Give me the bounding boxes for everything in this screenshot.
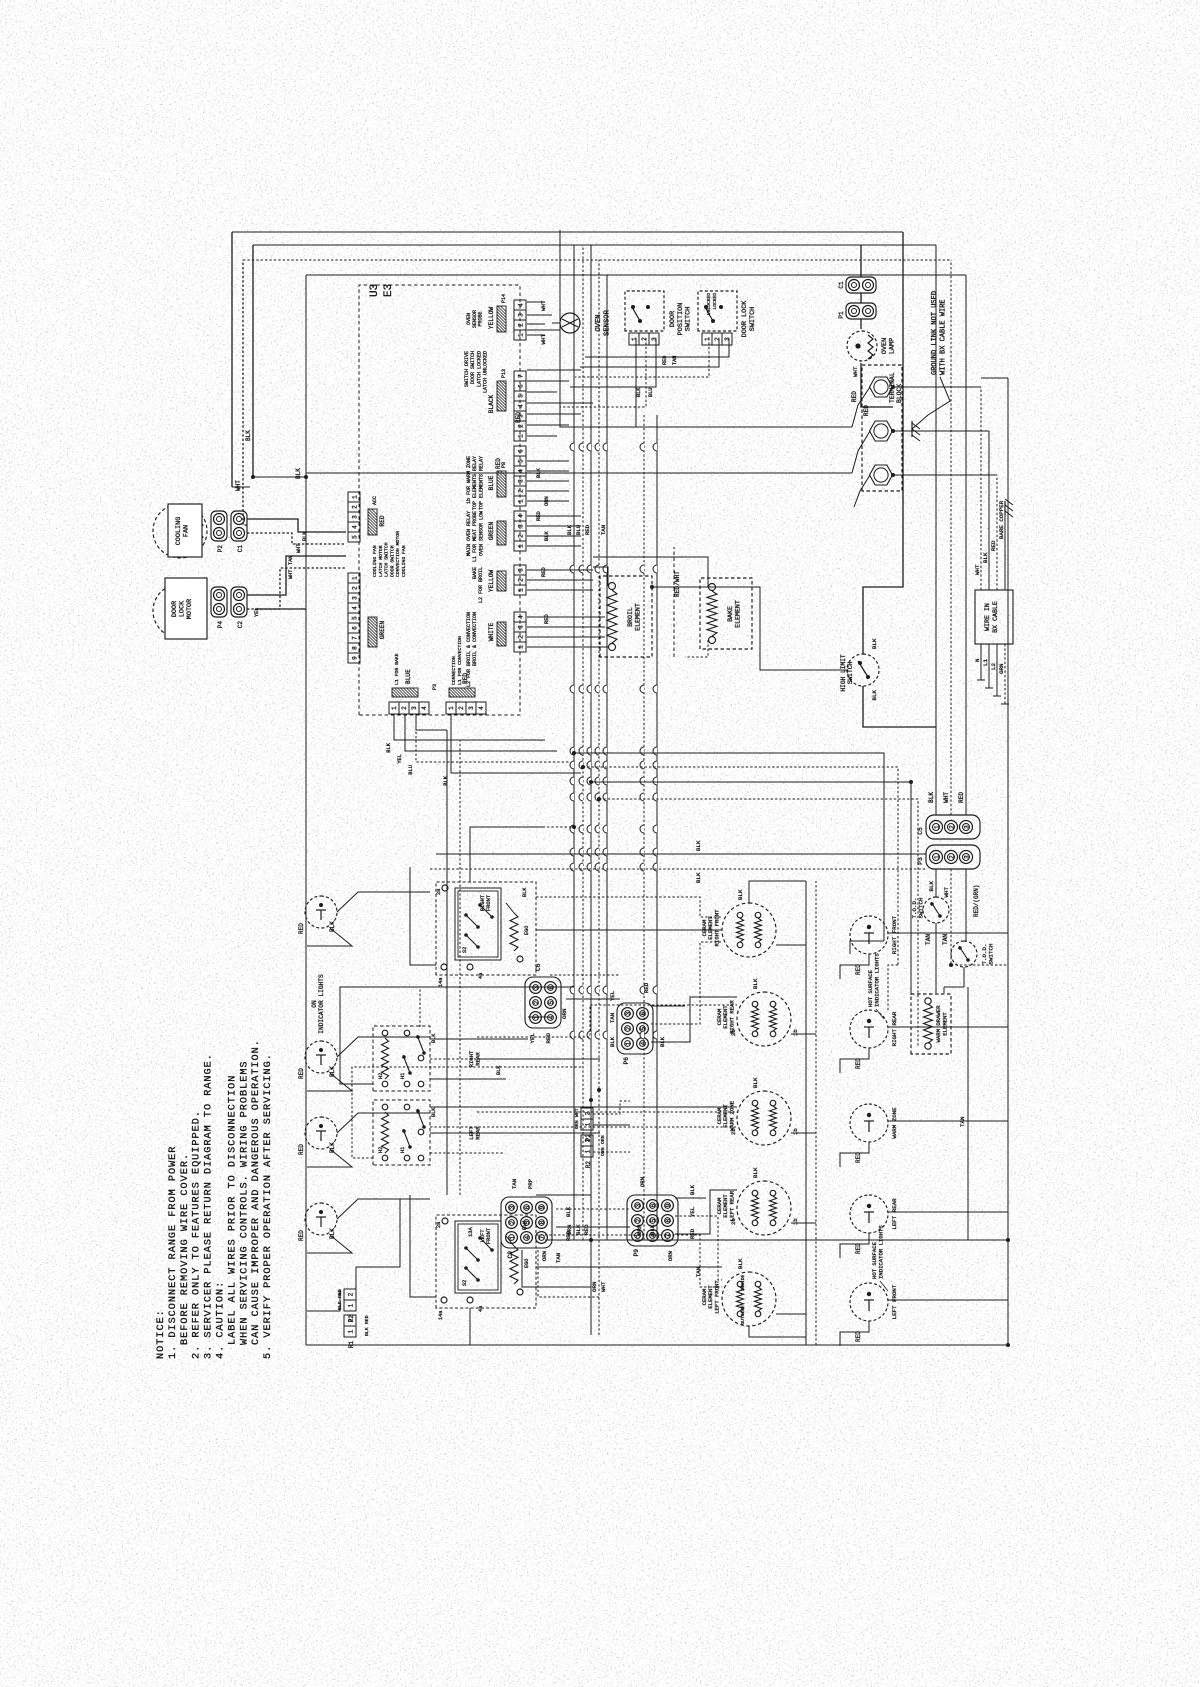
- wires hot lights: [840, 954, 869, 979]
- wire riser x818: [430, 868, 926, 870]
- svg-text:1: 1: [391, 706, 398, 710]
- wire hot light runs: [850, 941, 884, 954]
- svg-text:LATCH LOCKED: LATCH LOCKED: [476, 351, 482, 387]
- motor - cooling fan: [153, 504, 207, 558]
- wire bus band y=591: [590, 245, 592, 1335]
- svg-text:L1: L1: [982, 659, 989, 666]
- svg-text:ORN: ORN: [600, 1135, 606, 1144]
- svg-text:P13: P13: [501, 369, 507, 378]
- svg-text:INSIDE: INSIDE: [740, 1274, 746, 1291]
- svg-text:ACC: ACC: [372, 496, 378, 505]
- svg-text:ORN: ORN: [561, 1008, 568, 1019]
- wire bus band y=657: [656, 415, 658, 1240]
- svg-text:COOLING FAN: COOLING FAN: [372, 545, 378, 577]
- svg-text:WHT: WHT: [574, 1108, 580, 1117]
- svg-text:BLK: BLK: [536, 468, 542, 478]
- svg-text:8: 8: [665, 1218, 672, 1222]
- svg-text:WHT: WHT: [235, 480, 242, 491]
- svg-text:BLK: BLK: [431, 1033, 437, 1043]
- svg-text:3: 3: [352, 515, 359, 519]
- svg-text:1: 1: [518, 645, 525, 649]
- svg-text:FRONT: FRONT: [486, 1227, 492, 1244]
- svg-text:SWITCH DRIVE: SWITCH DRIVE: [464, 351, 470, 387]
- wires terminal block fan-out: [852, 387, 870, 427]
- on indicator light 4: [305, 1203, 337, 1235]
- svg-text:9: 9: [665, 1203, 672, 1207]
- svg-text:BLK: BLK: [522, 887, 528, 897]
- svg-text:BX CABLE: BX CABLE: [992, 601, 999, 633]
- svg-text:YELLOW: YELLOW: [488, 570, 495, 593]
- oven sensor: [527, 329, 560, 331]
- ceramic element left rear: [737, 1181, 791, 1235]
- wire P6 to elements: [651, 997, 737, 1042]
- svg-text:2b: 2b: [730, 1029, 737, 1036]
- svg-text:TAN: TAN: [600, 525, 607, 535]
- wires right front switch: [470, 827, 545, 882]
- wire BLK motor to bus: [252, 245, 254, 477]
- svg-text:5: 5: [518, 459, 525, 463]
- svg-text:3. SERVICER PLEASE RETURN DIA: 3. SERVICER PLEASE RETURN DIAGRAM TO RAN…: [204, 1053, 215, 1359]
- connector P4: [211, 587, 227, 617]
- svg-text:MOTOR: MOTOR: [186, 599, 194, 619]
- svg-text:RED: RED: [495, 458, 502, 469]
- svg-text:2. REFER ONLY TO FEATURES EQU: 2. REFER ONLY TO FEATURES EQUIPPED.: [192, 1110, 203, 1359]
- svg-text:13A: 13A: [468, 1227, 474, 1237]
- svg-text:BAKE: BAKE: [727, 606, 734, 622]
- svg-text:2: 2: [518, 635, 525, 639]
- warm drawer element: [911, 994, 951, 1054]
- svg-text:MAIN OVEN RELAY: MAIN OVEN RELAY: [466, 511, 472, 556]
- connector C2: [231, 587, 247, 617]
- svg-text:1: 1: [518, 434, 525, 438]
- svg-text:TAN: TAN: [959, 1116, 966, 1127]
- T.O.D. switch 1: [935, 869, 937, 897]
- svg-text:ORN: ORN: [591, 1281, 598, 1292]
- svg-text:2: 2: [401, 706, 408, 710]
- svg-text:WHT: WHT: [943, 886, 950, 897]
- svg-text:9: 9: [352, 656, 359, 660]
- svg-text:2: 2: [948, 855, 955, 859]
- hot surface indicator light left front: [850, 1283, 888, 1321]
- svg-text:RED: RED: [462, 673, 469, 684]
- svg-text:2: 2: [352, 505, 359, 509]
- svg-text:TOP ELEMENTS RELAY: TOP ELEMENTS RELAY: [478, 456, 484, 510]
- svg-text:RIGHT REAR: RIGHT REAR: [891, 1011, 898, 1046]
- svg-text:LABEL ALL WIRES PRIOR TO DISCO: LABEL ALL WIRES PRIOR TO DISCONNECTION: [227, 1075, 238, 1345]
- svg-text:WHT: WHT: [974, 564, 981, 575]
- connector BLACK (door latch): [514, 431, 526, 441]
- hot surface indicator light warm zone: [850, 1104, 888, 1142]
- svg-text:6: 6: [352, 626, 359, 630]
- svg-text:LAMP: LAMP: [889, 338, 897, 354]
- wire riser x888: [599, 799, 918, 1047]
- svg-text:1: 1: [631, 337, 638, 341]
- wires P2 R2: [593, 1124, 630, 1126]
- svg-text:BEFORE REMOVING WIRE COVER.: BEFORE REMOVING WIRE COVER.: [180, 1153, 191, 1345]
- svg-text:LATCH MOTOR: LATCH MOTOR: [378, 545, 384, 577]
- svg-text:TAN: TAN: [942, 934, 949, 945]
- svg-text:UNLOCKED: UNLOCKED: [706, 293, 712, 315]
- svg-text:6: 6: [518, 384, 525, 388]
- svg-text:4: 4: [518, 469, 525, 473]
- on indicator light 2: [305, 1041, 337, 1073]
- wire WHT to C5: [950, 260, 952, 815]
- connector P6: [617, 1003, 653, 1054]
- svg-text:LEFT REAR: LEFT REAR: [891, 1198, 898, 1230]
- svg-text:ORN: ORN: [639, 1177, 646, 1187]
- connector BLUE (elements relay): [514, 496, 526, 506]
- svg-text:TAN: TAN: [695, 1267, 702, 1277]
- connector C6: [525, 977, 561, 1028]
- svg-text:1: 1: [933, 825, 940, 829]
- svg-text:1: 1: [448, 706, 455, 710]
- connector P9: [627, 1195, 678, 1246]
- wires C9 P9: [556, 1226, 630, 1228]
- svg-text:4: 4: [524, 1235, 531, 1239]
- T.O.D. switch 2: [965, 869, 967, 941]
- svg-text:HIGH LIMIT: HIGH LIMIT: [840, 654, 847, 691]
- wire drops from board connectors: [527, 334, 545, 336]
- ceramic element warm zone: [737, 1091, 791, 1145]
- svg-text:RIGHT FRONT: RIGHT FRONT: [713, 909, 720, 947]
- svg-text:2: 2: [458, 706, 465, 710]
- svg-text:WHT: WHT: [943, 792, 950, 803]
- wires broil bake to bands: [605, 646, 608, 648]
- svg-text:RED: RED: [544, 614, 550, 624]
- svg-text:P4: P4: [217, 621, 224, 629]
- svg-text:BLK: BLK: [695, 872, 702, 883]
- svg-text:BLU: BLU: [575, 525, 582, 535]
- svg-text:BLK: BLK: [565, 1206, 572, 1217]
- wire P9 to elements: [675, 1190, 737, 1234]
- svg-text:2: 2: [509, 1220, 516, 1224]
- svg-text:C6: C6: [535, 963, 542, 971]
- svg-text:WARM ZONE: WARM ZONE: [728, 1100, 735, 1131]
- wire bus elements 2: [815, 881, 817, 1345]
- svg-text:BAKE: BAKE: [472, 567, 478, 579]
- svg-text:4: 4: [352, 606, 359, 610]
- svg-text:1: 1: [352, 495, 359, 499]
- wires oven lamp: [860, 319, 862, 329]
- svg-text:BROIL & CONVECTION: BROIL & CONVECTION: [472, 612, 478, 666]
- svg-text:POSITION: POSITION: [677, 303, 685, 336]
- svg-text:INDICATOR LIGHTS: INDICATOR LIGHTS: [877, 1225, 884, 1279]
- svg-text:TAN: TAN: [555, 1253, 562, 1263]
- svg-text:ORN: ORN: [541, 1251, 548, 1261]
- svg-text:BLUE: BLUE: [488, 475, 495, 490]
- svg-text:CONNECTION: CONNECTION: [451, 656, 457, 685]
- svg-text:TAN: TAN: [609, 1013, 616, 1023]
- svg-text:WHT: WHT: [600, 1281, 607, 1292]
- svg-text:7: 7: [518, 374, 525, 378]
- svg-text:SWITCH: SWITCH: [749, 307, 757, 331]
- svg-text:3: 3: [518, 313, 525, 317]
- wire bus right vertical RED: [306, 274, 966, 276]
- svg-text:4: 4: [478, 706, 485, 710]
- motor - door lock motor: [153, 584, 207, 638]
- svg-text:1b: 1b: [792, 1128, 799, 1135]
- svg-text:RIGHT: RIGHT: [480, 894, 486, 911]
- svg-text:BLACK: BLACK: [488, 394, 495, 413]
- svg-text:5. VERIFY PROPER OPERATION AF: 5. VERIFY PROPER OPERATION AFTER SERVICI…: [263, 1053, 274, 1359]
- svg-text:4: 4: [518, 303, 525, 307]
- svg-text:RED: RED: [379, 515, 386, 526]
- svg-text:RIGHT FRONT: RIGHT FRONT: [891, 915, 898, 954]
- connector RED (top): [348, 532, 360, 542]
- broil element: [600, 576, 652, 657]
- svg-text:SWITCH: SWITCH: [987, 943, 994, 964]
- svg-text:DOOR LOCK: DOOR LOCK: [741, 300, 749, 338]
- svg-text:YEL: YEL: [397, 754, 403, 764]
- svg-text:RED: RED: [298, 923, 305, 934]
- svg-text:1: 1: [352, 576, 359, 580]
- wire bus right vertical BLK: [253, 244, 936, 246]
- svg-text:RED: RED: [541, 567, 547, 577]
- wires left front switch: [469, 1308, 471, 1345]
- svg-text:P1: P1: [838, 311, 845, 319]
- high limit switch: [847, 654, 879, 686]
- svg-text:C9: C9: [507, 1251, 514, 1259]
- wires high limit: [652, 587, 847, 670]
- svg-text:YELLOW: YELLOW: [488, 307, 495, 330]
- svg-text:PRP: PRP: [527, 1178, 534, 1189]
- svg-text:2a: 2a: [436, 889, 442, 895]
- svg-text:BLK: BLK: [689, 1184, 696, 1195]
- infinite switch left front: [436, 1215, 536, 1308]
- door lock switch: [698, 291, 737, 331]
- ceramic element left front: [722, 1272, 776, 1326]
- svg-text:2b: 2b: [730, 1218, 737, 1225]
- connector P2 (lights): [581, 1119, 593, 1130]
- svg-text:BLK: BLK: [544, 531, 550, 541]
- wire riser x833: [436, 853, 926, 855]
- svg-text:P6: P6: [623, 1057, 630, 1065]
- svg-text:TOP ELEMENTS RELAY: TOP ELEMENTS RELAY: [472, 456, 478, 510]
- svg-text:3: 3: [468, 706, 475, 710]
- svg-text:L1 FOR CONVECTION: L1 FOR CONVECTION: [457, 636, 463, 685]
- svg-text:RED: RED: [298, 1230, 305, 1241]
- svg-text:5: 5: [548, 1000, 555, 1004]
- svg-text:2: 2: [518, 489, 525, 493]
- oven lamp: [847, 331, 877, 361]
- svg-text:INDICATOR LIGHTS: INDICATOR LIGHTS: [873, 953, 880, 1007]
- svg-text:CONVECTION MOTOR: CONVECTION MOTOR: [395, 531, 401, 577]
- svg-text:BLK: BLK: [695, 840, 702, 851]
- wire riser x920: [583, 767, 898, 965]
- svg-text:3: 3: [724, 337, 731, 341]
- svg-text:BLK: BLK: [295, 468, 302, 479]
- svg-text:3: 3: [625, 1011, 632, 1015]
- wire bus RED top: [305, 275, 307, 1345]
- connector C1 (lamp): [846, 277, 876, 293]
- svg-text:BLK: BLK: [302, 531, 308, 541]
- wires left rear switch: [477, 1132, 600, 1134]
- svg-text:LEFT: LEFT: [480, 1229, 486, 1243]
- wire ego rf top: [410, 867, 436, 965]
- svg-text:1: 1: [704, 337, 711, 341]
- infinite switch right rear: [373, 1026, 430, 1091]
- svg-text:1: 1: [518, 333, 525, 337]
- svg-text:C2: C2: [237, 621, 244, 629]
- svg-text:P9: P9: [633, 1249, 640, 1257]
- hot surface indicator light right front: [850, 916, 888, 954]
- junction dots: [572, 751, 576, 755]
- svg-text:RED: RED: [662, 356, 668, 365]
- control board U3 E3 outline: [359, 285, 520, 715]
- svg-text:3: 3: [352, 596, 359, 600]
- connector P1 (lamp): [846, 303, 876, 319]
- infinite switch right front: [436, 882, 536, 975]
- svg-text:S2: S2: [462, 947, 468, 953]
- svg-text:BLK: BLK: [752, 1167, 759, 1178]
- svg-text:H1: H1: [400, 1147, 406, 1153]
- svg-text:BLK: BLK: [871, 689, 878, 700]
- hot surface indicator light right rear: [850, 1010, 888, 1048]
- svg-text:2b: 2b: [730, 1128, 737, 1135]
- wire bus band y=574: [573, 245, 575, 1240]
- svg-text:RED: RED: [298, 1068, 305, 1079]
- svg-text:OUTSIDE: OUTSIDE: [740, 1305, 746, 1325]
- wires on lights: [337, 892, 430, 912]
- svg-text:LEFT REAR: LEFT REAR: [728, 1190, 735, 1221]
- svg-text:BLK: BLK: [566, 524, 573, 535]
- svg-text:3: 3: [518, 524, 525, 528]
- svg-text:GREEN: GREEN: [488, 521, 495, 540]
- svg-text:CAN CAUSE IMPROPER AND DANGERO: CAN CAUSE IMPROPER AND DANGEROUS OPERATI…: [251, 1039, 262, 1345]
- svg-text:6: 6: [518, 449, 525, 453]
- wire riser x934: [574, 753, 884, 941]
- svg-text:ORN: ORN: [636, 1224, 643, 1235]
- svg-text:U3: U3: [369, 284, 381, 297]
- wires board left connectors: [393, 732, 395, 740]
- svg-text:BLUE: BLUE: [405, 669, 412, 684]
- svg-text:2a: 2a: [436, 1222, 442, 1228]
- connector GREEN (top): [348, 653, 360, 663]
- svg-text:RED: RED: [298, 1144, 305, 1155]
- wire BLK to C5: [935, 245, 937, 815]
- svg-text:1. DISCONNECT RANGE FROM POWE: 1. DISCONNECT RANGE FROM POWER: [168, 1146, 179, 1359]
- wire bare copper (BX): [1004, 509, 1006, 590]
- svg-text:TAN: TAN: [925, 934, 932, 945]
- hot surface indicator light left rear: [850, 1195, 888, 1233]
- svg-text:3: 3: [635, 1203, 642, 1207]
- wire YEL long run: [446, 730, 448, 1195]
- wire tan long bottom: [967, 987, 969, 1240]
- svg-text:2: 2: [348, 1292, 355, 1296]
- svg-text:BLK: BLK: [649, 1224, 656, 1235]
- svg-text:2: 2: [352, 586, 359, 590]
- svg-text:WHEN SERVICING CONTROLS. WIRIN: WHEN SERVICING CONTROLS. WIRING PROBLEMS: [239, 1060, 250, 1345]
- svg-text:BLK: BLK: [245, 430, 252, 441]
- wire TAN (warm drawer): [935, 923, 937, 993]
- svg-text:3: 3: [651, 337, 658, 341]
- svg-text:4a: 4a: [478, 1306, 484, 1312]
- wire rear switch risers: [430, 1078, 506, 1080]
- infinite switch left rear: [373, 1100, 430, 1165]
- on indicator light 1: [305, 896, 337, 928]
- wire RED/WHT dashed: [673, 547, 675, 657]
- svg-text:OVEN SENSOR LOW: OVEN SENSOR LOW: [478, 511, 484, 556]
- svg-text:BLK: BLK: [575, 1224, 582, 1235]
- svg-text:1b: 1b: [792, 1218, 799, 1225]
- wire C9 left runs: [522, 1250, 591, 1287]
- svg-text:8: 8: [352, 646, 359, 650]
- wire bus band y=607: [606, 275, 608, 1240]
- svg-text:WHT: WHT: [296, 544, 302, 553]
- svg-text:1b: 1b: [792, 1029, 799, 1036]
- svg-text:1: 1: [933, 855, 940, 859]
- svg-text:LOCKED: LOCKED: [712, 293, 718, 310]
- svg-text:RED/(GRN): RED/(GRN): [973, 885, 980, 917]
- svg-text:H2: H2: [378, 1073, 384, 1079]
- wire RED to C5: [965, 275, 967, 815]
- svg-text:BLK: BLK: [928, 792, 935, 803]
- svg-text:1: 1: [348, 1329, 355, 1333]
- svg-text:LATCH SWITCH: LATCH SWITCH: [384, 542, 390, 577]
- svg-text:1: 1: [518, 499, 525, 503]
- svg-text:ELEMENT: ELEMENT: [941, 1012, 948, 1036]
- svg-text:BLU: BLU: [648, 388, 654, 397]
- svg-text:ON: ON: [311, 1000, 318, 1008]
- svg-text:BLK: BLK: [431, 1107, 437, 1117]
- wire in BX cable box: [975, 590, 1013, 644]
- connector R1: [344, 1326, 356, 1337]
- svg-text:2: 2: [625, 1026, 632, 1030]
- wire WHT fan to bus: [243, 260, 247, 525]
- svg-text:FRONT: FRONT: [486, 894, 492, 911]
- svg-text:YEL: YEL: [689, 1207, 696, 1217]
- svg-text:2: 2: [635, 1218, 642, 1222]
- svg-text:H1: H1: [400, 1073, 406, 1079]
- svg-text:SWITCH: SWITCH: [685, 307, 693, 331]
- svg-text:WIRE IN: WIRE IN: [984, 603, 991, 631]
- svg-text:5: 5: [650, 1218, 657, 1222]
- svg-text:3: 3: [509, 1205, 516, 1209]
- connector P3 BLUE (left): [389, 702, 399, 714]
- svg-text:TAN: TAN: [672, 356, 678, 365]
- svg-text:ORN: ORN: [667, 1251, 674, 1261]
- svg-text:RED: RED: [536, 511, 542, 521]
- svg-text:BLK: BLK: [636, 387, 642, 397]
- svg-text:ORN: ORN: [574, 1120, 580, 1129]
- svg-text:BLK: BLK: [496, 1065, 502, 1075]
- svg-text:RED: RED: [584, 524, 591, 535]
- svg-text:RED: RED: [851, 391, 858, 402]
- wire bus band y=599: [598, 260, 600, 1335]
- svg-text:RED: RED: [583, 1224, 590, 1235]
- svg-text:4: 4: [518, 514, 525, 518]
- wire bus band y=583: [582, 245, 584, 1240]
- wire bus elements 1: [805, 881, 807, 1345]
- wire riser x905: [591, 782, 911, 995]
- svg-text:BARE COPPER: BARE COPPER: [998, 500, 1005, 539]
- svg-text:WARM ZONE: WARM ZONE: [891, 1107, 898, 1139]
- svg-text:N: N: [974, 658, 981, 662]
- wire bus right vertical WHT: [243, 259, 951, 261]
- svg-text:4a: 4a: [478, 973, 484, 979]
- svg-text:RED: RED: [958, 792, 965, 803]
- svg-text:WHT: WHT: [852, 366, 859, 377]
- svg-text:BLK: BLK: [752, 978, 759, 989]
- svg-text:BLK: BLK: [386, 742, 392, 752]
- svg-text:BLK: BLK: [443, 775, 449, 785]
- svg-text:LEFT FRONT: LEFT FRONT: [891, 1284, 898, 1319]
- svg-text:L2 FOR BROIL: L2 FOR BROIL: [478, 567, 484, 603]
- svg-text:H2: H2: [378, 1147, 384, 1153]
- svg-text:L1 FOR BAKE: L1 FOR BAKE: [394, 653, 400, 685]
- svg-text:SWITCH: SWITCH: [847, 662, 854, 685]
- svg-text:WHITE: WHITE: [488, 622, 495, 641]
